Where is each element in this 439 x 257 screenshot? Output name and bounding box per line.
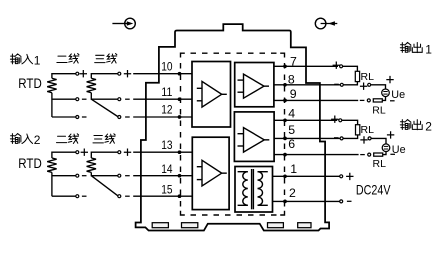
wire input2 2wire bottom lead: [52, 172, 76, 196]
svg-text:5: 5: [288, 123, 295, 137]
label 输出1: [400, 42, 422, 52]
wire terminal 4 line: [274, 119, 337, 121]
polarity plus Ue output2: [387, 131, 394, 138]
DIN foot pad 4: [298, 223, 311, 228]
terminal circle output2 minus: [340, 137, 343, 140]
polarity minus Ue output1: [390, 100, 395, 102]
svg-text:RL: RL: [372, 104, 386, 116]
svg-text:2: 2: [425, 120, 432, 134]
DIN foot pad 2: [182, 223, 198, 228]
polarity plus output2 Ue branch: [360, 136, 367, 143]
label 输入1: [10, 54, 32, 64]
polarity plus input1 2wire: [80, 70, 87, 77]
polarity plus output2 load: [331, 116, 338, 123]
terminal circle input1 3wire minus bottom: [118, 116, 121, 119]
wire input2 line-13 three-wire lead: [91, 152, 117, 158]
svg-text:1: 1: [425, 43, 432, 57]
resistor RL output2 series: [374, 153, 383, 156]
svg-text:RTD: RTD: [18, 155, 42, 171]
terminal circle output2 plus: [339, 119, 342, 122]
polarity plus input2 2wire: [81, 149, 88, 156]
DIN foot pad 1: [152, 223, 168, 228]
svg-text:10: 10: [161, 60, 172, 74]
polarity minus input2 2wire mid: [82, 175, 87, 177]
polarity plus input2 3wire: [124, 149, 131, 156]
resistor RTD input2 two-wire: [47, 158, 56, 172]
svg-text:RTD: RTD: [18, 75, 42, 91]
terminal circle input2 2wire minus mid: [76, 174, 79, 177]
junction dot terminal 15: [178, 194, 182, 198]
polarity plus supply: [346, 173, 353, 180]
svg-text:RL: RL: [373, 158, 387, 170]
svg-text:12: 12: [161, 102, 172, 116]
amplifier block box U4: [192, 137, 229, 209]
terminal circle output1 minus: [340, 83, 343, 86]
junction dot terminal 2: [283, 200, 287, 204]
terminal circle input1 2wire minus bottom: [76, 116, 79, 119]
wire terminal 11 line: [133, 98, 192, 100]
polarity minus input1 3wire bottom: [125, 116, 130, 118]
svg-text:2: 2: [289, 186, 296, 200]
junction dot terminal 4: [283, 118, 287, 122]
wire output2 load top: [342, 120, 358, 124]
svg-text:11: 11: [161, 85, 172, 99]
resistor RTD input2 three-wire: [87, 158, 96, 172]
junction dot terminal 8: [283, 83, 287, 87]
label 二线 input2: [56, 134, 78, 144]
transformer block box T1: [235, 167, 273, 213]
svg-text:15: 15: [161, 182, 172, 196]
junction dot terminal 12: [178, 115, 182, 119]
polarity minus output1 series: [360, 99, 365, 101]
wire terminal 6 line: [274, 154, 358, 156]
svg-text:13: 13: [161, 138, 172, 152]
polarity minus input2 2wire bottom: [82, 195, 87, 197]
amplifier block box U2: [235, 63, 274, 107]
module housing outline: [136, 24, 330, 230]
wire terminal 12 line: [133, 116, 192, 118]
junction dot terminal 14: [178, 174, 182, 178]
wire terminal 13 line: [133, 151, 192, 153]
terminal circle input1 2wire minus mid: [76, 98, 79, 101]
svg-text:1: 1: [290, 162, 297, 176]
svg-text:RL: RL: [361, 124, 375, 136]
svg-text:Ue: Ue: [391, 89, 405, 101]
wire terminal 14 line: [133, 175, 192, 177]
resistor RTD input1 three-wire: [87, 78, 96, 92]
polarity minus output1 load: [334, 83, 339, 85]
terminal circle output1 plus: [340, 65, 343, 68]
svg-text:Ue: Ue: [392, 144, 406, 156]
svg-text:14: 14: [161, 162, 172, 176]
polarity minus input1 3wire mid: [125, 98, 130, 100]
wire terminal 1 line: [273, 175, 340, 177]
wire input1 3wire bottom lead: [91, 93, 117, 100]
junction dot terminal 11: [178, 97, 182, 101]
svg-text:RL: RL: [361, 71, 375, 83]
terminal circle input2 3wire minus bottom: [118, 195, 121, 198]
wire terminal 5 line: [274, 137, 340, 139]
op-amp U1: [197, 81, 227, 107]
label 二线 input1: [57, 54, 79, 64]
polarity plus input1 3wire: [124, 70, 131, 77]
DC source Ue output1: [382, 89, 390, 97]
wire output2 Ue bottom: [383, 151, 386, 154]
junction dot terminal 1: [283, 174, 287, 178]
terminal circle input1 2wire plus: [76, 72, 79, 75]
resistor RL output1 series: [373, 99, 382, 102]
label 三线 input2: [93, 134, 115, 144]
wire output2 load bottom: [343, 135, 357, 139]
wire input2 3wire bottom lead: [91, 172, 117, 175]
svg-text:7: 7: [290, 55, 297, 69]
input signal symbol (circle with arrow, top left): [112, 18, 135, 29]
svg-text:6: 6: [288, 137, 295, 151]
DC source Ue output2: [382, 144, 390, 152]
dashed isolation boundary: [181, 53, 285, 215]
resistor RL output2 load: [356, 125, 360, 135]
wire input1 2wire bottom lead: [52, 93, 76, 117]
junction dot terminal 7: [283, 64, 287, 68]
wire input1 3wire diagonal: [91, 99, 117, 116]
svg-text:8: 8: [288, 72, 295, 86]
polarity plus output1 load: [333, 62, 340, 69]
terminal circle supply minus: [340, 200, 343, 203]
polarity minus output2 load: [334, 137, 339, 139]
amplifier block box U1: [192, 62, 231, 128]
wire output1 load top: [343, 66, 358, 71]
wire input2 line-13 two-wire lead: [52, 152, 76, 158]
amplifier block box U3: [234, 112, 274, 161]
svg-text:9: 9: [290, 87, 297, 101]
wire input2 3wire diagonal: [91, 176, 117, 196]
svg-text:1: 1: [34, 53, 41, 67]
junction dot terminal 13: [178, 150, 182, 154]
terminal circle input2 3wire plus: [118, 151, 121, 154]
wire input1 2wire bottom level: [52, 116, 76, 118]
junction dot terminal 10: [178, 72, 182, 76]
resistor RL output1 load: [355, 71, 359, 81]
output signal symbol (circle with arrow, top right): [315, 18, 337, 29]
label 输出2: [400, 120, 422, 130]
terminal circle output1 Ue plus: [368, 83, 371, 86]
terminal circle input2 3wire minus mid: [118, 174, 121, 177]
terminal circle output1 series minus: [367, 99, 370, 102]
polarity minus supply: [347, 200, 352, 202]
wire input2 2wire bottom level: [52, 195, 76, 197]
DIN foot pad 3: [268, 223, 284, 228]
polarity minus input1 2wire mid: [82, 98, 87, 100]
wire output1 Ue top: [371, 85, 386, 89]
wire output1 load bottom: [344, 82, 358, 85]
polarity minus input2 3wire bottom: [125, 195, 130, 197]
label 三线 input1: [95, 54, 117, 64]
wire terminal 2 line: [273, 200, 340, 202]
terminal circle supply plus: [340, 175, 343, 178]
transformer T1: [238, 169, 268, 209]
label 输入2: [10, 134, 32, 144]
wire terminal 9 line: [274, 99, 358, 101]
terminal circle input2 2wire plus: [76, 151, 79, 154]
wire input1 line-10 three-wire lead: [91, 74, 117, 79]
polarity minus input2 3wire mid: [125, 175, 130, 177]
resistor RTD input1 two-wire: [47, 78, 56, 92]
terminal circle input1 3wire plus: [118, 72, 121, 75]
junction dot terminal 5: [283, 137, 287, 141]
wire terminal 10 line: [133, 73, 192, 75]
polarity minus output2 series: [360, 154, 365, 156]
terminal circle input2 2wire minus bottom: [76, 195, 79, 198]
svg-text:4: 4: [288, 107, 295, 121]
wire terminal 15 line: [133, 195, 192, 197]
terminal circle output2 Ue plus: [368, 137, 371, 140]
op-amp U4: [197, 160, 227, 186]
wire output2 Ue top: [371, 138, 386, 144]
junction dot terminal 9: [283, 99, 287, 103]
op-amp U3: [238, 128, 270, 153]
svg-text:DC24V: DC24V: [356, 181, 391, 197]
op-amp U2: [238, 74, 270, 98]
junction dot terminal 6: [283, 153, 287, 157]
polarity minus Ue output2: [390, 153, 395, 155]
terminal circle output2 series minus: [368, 153, 371, 156]
wire terminal 7 line: [274, 65, 338, 67]
wire terminal 8 line: [274, 84, 340, 86]
polarity minus input1 2wire bottom: [82, 116, 87, 118]
polarity plus Ue output1: [386, 76, 393, 83]
polarity plus output1 Ue branch: [360, 83, 367, 90]
wire input1 line-10 two-wire lead: [52, 74, 76, 79]
terminal circle input1 3wire minus mid: [118, 98, 121, 101]
wire output1 Ue bottom: [382, 97, 385, 101]
svg-text:2: 2: [34, 133, 41, 147]
